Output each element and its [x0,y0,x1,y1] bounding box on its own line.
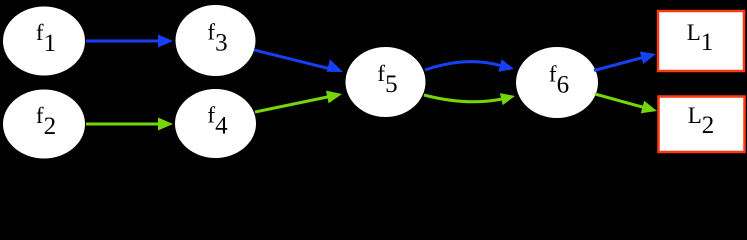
node f4 [175,89,256,158]
node f3 [176,5,256,76]
node f5 [346,47,426,117]
edge f5->f6 (green curve) [424,93,515,105]
edge f1->f3 (blue) [86,35,173,48]
box L2 [659,97,745,153]
edge f3->f5 (blue) [254,50,343,72]
node f6 [516,47,598,118]
node f2 [3,90,85,159]
edge f5->f6 (blue curve) [425,59,514,72]
edge f2->f4 (green) [86,118,173,131]
edge f4->f5 (green) [255,91,342,112]
node f1 [3,7,85,76]
box L1 [658,11,744,71]
edge f6->L1 (blue) [594,52,656,71]
edge f6->L2 (green) [595,94,657,113]
